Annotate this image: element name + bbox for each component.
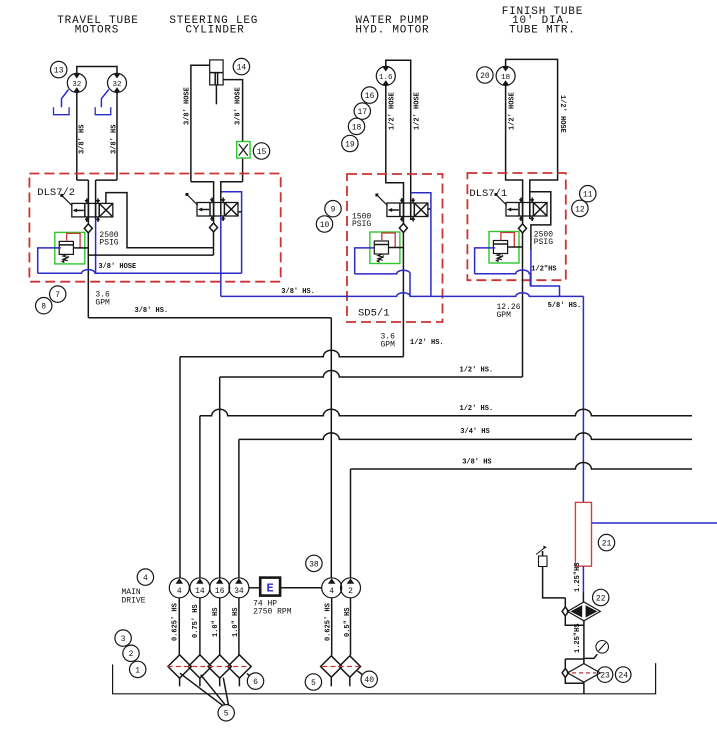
check valve V1 [84, 224, 92, 233]
wire blue 5/8 down [582, 296, 584, 502]
wire L3 1/2 HS [200, 409, 692, 416]
balloon 40 [358, 671, 378, 688]
wire V4 port A [522, 203, 524, 224]
pump P5 4 [322, 578, 342, 598]
svg-text:12: 12 [575, 205, 585, 214]
label 1/2' HS. L2 [460, 367, 494, 375]
motor 18 [496, 66, 515, 85]
balloon 11 [580, 186, 596, 202]
label 0.75' HS p2 [192, 604, 200, 638]
balloon 4 main drive [137, 569, 153, 585]
balloon 13 [51, 61, 67, 77]
balloon 20 [477, 67, 493, 83]
wire M2 down [116, 92, 118, 180]
pump P1 4 [169, 578, 189, 598]
balloon 21 [598, 534, 614, 550]
wire V2 T down [213, 232, 215, 255]
svg-text:3/4' HS: 3/4' HS [460, 428, 489, 436]
strainer S2 [188, 655, 211, 687]
svg-text:5/8' HS.: 5/8' HS. [548, 302, 582, 310]
svg-text:7: 7 [55, 291, 60, 300]
strainer S1 [168, 655, 191, 687]
svg-text:19: 19 [345, 140, 355, 149]
wire suction P6 [350, 598, 352, 656]
wire L2 left down [219, 377, 221, 578]
title FINISH TUBE 10' DIA. TUBE MTR. [502, 6, 583, 37]
balloon 15 [253, 143, 269, 159]
svg-text:9: 9 [331, 206, 336, 215]
filter 22 bypass [562, 598, 584, 625]
balloon 12 [572, 200, 588, 216]
wire blue V4 down [530, 250, 559, 296]
svg-text:3: 3 [121, 635, 126, 644]
svg-text:16: 16 [215, 587, 225, 596]
wire finish motor bottom [506, 85, 523, 202]
filter 22 [568, 602, 601, 621]
wire shaft E-4R [280, 587, 322, 589]
wire cooler out blue [592, 522, 717, 524]
svg-text:14: 14 [237, 63, 247, 72]
svg-text:1.25"HS: 1.25"HS [574, 563, 582, 592]
svg-text:HYD. MOTOR: HYD. MOTOR [355, 25, 429, 37]
drain line M2 [101, 90, 108, 108]
svg-text:0.75' HS: 0.75' HS [192, 604, 200, 638]
wire V3 T down [402, 233, 404, 357]
air breather valve [536, 546, 547, 567]
label 1.25'HS top [574, 563, 582, 592]
svg-text:20: 20 [480, 72, 490, 81]
relief valve RV1 [55, 232, 89, 264]
wire V4 port B [529, 203, 531, 220]
relief valve RV3 [370, 232, 404, 264]
title WATER PUMP HYD. MOTOR [355, 15, 429, 36]
test point X [239, 144, 248, 155]
wire V3 port B [410, 203, 412, 220]
svg-text:3/8' HOSE: 3/8' HOSE [235, 87, 243, 125]
label 74 HP [253, 600, 277, 609]
svg-text:DRIVE: DRIVE [122, 597, 146, 606]
svg-text:1.6: 1.6 [379, 74, 393, 82]
label 2500 PSIG v1 [99, 231, 118, 248]
wire blue to V2 [221, 192, 242, 273]
svg-text:GPM: GPM [497, 311, 512, 320]
engine E box [260, 578, 280, 596]
label 1500 PSIG [352, 213, 371, 230]
wire M1 down [76, 92, 78, 180]
balloon 23 [597, 667, 613, 683]
wire L1 1/2 HS [180, 350, 404, 357]
svg-text:38: 38 [309, 560, 319, 569]
relief valve RV4 [489, 232, 523, 264]
test point 15 green box [237, 142, 250, 159]
svg-text:10: 10 [320, 221, 330, 230]
wire cooler bottom blue [582, 566, 584, 592]
balloon 19 [342, 135, 358, 151]
wire cylinder right [223, 80, 243, 142]
wire V1 port B [95, 180, 97, 219]
wire motor top link [77, 67, 117, 74]
valve V4 DLS7/1 section [495, 193, 548, 221]
label 3/8' HS left [79, 125, 87, 154]
title TRAVEL TUBE MOTORS [57, 15, 138, 36]
filter 23 [568, 664, 601, 683]
wire V3 stub right [428, 208, 431, 210]
label 1/2' HOSE ft left [509, 92, 517, 130]
reservoir bracket M2 [95, 107, 111, 115]
strainer S4 [228, 655, 251, 687]
check valve V3 [399, 224, 407, 233]
svg-text:32: 32 [112, 81, 121, 89]
label 3/8' HOSE [98, 263, 136, 271]
label 3.6 GPM mid [381, 333, 396, 350]
wire suction P4 [238, 598, 240, 656]
pump P4 34 [229, 578, 249, 598]
svg-text:23: 23 [600, 671, 610, 680]
wire V2 stub right [238, 211, 242, 213]
svg-text:2: 2 [129, 650, 134, 659]
svg-text:MOTORS: MOTORS [75, 25, 119, 37]
strainer red line left [168, 666, 250, 668]
svg-text:1/2' HS.: 1/2' HS. [460, 405, 494, 413]
svg-text:GPM: GPM [95, 299, 110, 308]
svg-text:1.25"HS: 1.25"HS [574, 624, 582, 653]
svg-text:21: 21 [602, 539, 612, 548]
wire pump4R up [330, 318, 332, 578]
svg-text:1/2' HOSE: 1/2' HOSE [509, 92, 517, 130]
label 3/8' HS L5 [462, 459, 491, 467]
svg-text:3/8' HOSE: 3/8' HOSE [98, 263, 136, 271]
balloon 3 [115, 630, 131, 646]
valve V1 DLS7/2 section [60, 194, 113, 222]
wire L5 3/8 HS [351, 463, 693, 470]
label 3/8' HS right [111, 125, 119, 154]
label 1/2' HOSE wp left [388, 92, 396, 130]
balloon 1 [130, 661, 146, 677]
label 5/8' HS. [548, 302, 582, 310]
svg-text:14: 14 [195, 587, 205, 596]
wire suction P5 [331, 598, 333, 656]
wire V1 right route [106, 193, 214, 248]
reservoir outline [113, 663, 656, 694]
wire shaft 34-E [249, 587, 260, 589]
strainer S6 [339, 656, 360, 687]
label DLS7/1 [469, 188, 507, 200]
svg-text:1/2' HOSE: 1/2' HOSE [388, 92, 396, 130]
wire L3 left down [199, 416, 201, 578]
wire M1 step [77, 179, 89, 181]
wire M2 step [96, 179, 117, 181]
svg-text:18: 18 [352, 123, 362, 132]
wire L1 left down [179, 357, 181, 578]
wire supply 3/8 HS [88, 317, 331, 319]
label 3/8' HOSE right [235, 87, 243, 125]
wire V2 step left [191, 182, 214, 203]
enclosure DLS7/2 dashed box [29, 174, 280, 282]
enclosure DLS7/1 dashed box [467, 173, 565, 280]
svg-text:TUBE MTR.: TUBE MTR. [509, 25, 576, 37]
balloon 17 [354, 103, 370, 119]
wire filter23 to tank [583, 682, 585, 694]
check valve V4 [519, 224, 527, 233]
cooler 21 [575, 502, 591, 566]
enclosure SD5/1 dashed box [347, 174, 443, 322]
cylinder body [210, 60, 223, 104]
label 1.25'HS bot [574, 624, 582, 653]
balloon 6 [247, 673, 264, 689]
drain line M1 [62, 90, 69, 108]
balloon 10 [316, 216, 332, 232]
wire blue V3 port [411, 193, 431, 297]
wire V2 blue down [220, 216, 222, 296]
wire suction P1 [178, 598, 180, 656]
wire L2 1/2 HS [220, 371, 523, 377]
valve V2 steering section [186, 193, 239, 221]
label 0.625' HS p1 [172, 603, 180, 641]
label 1/2'HS v4 [531, 266, 556, 274]
title STEERING LEG CYLINDER [169, 15, 258, 36]
balloon 16 [361, 87, 377, 103]
svg-text:1/2' HOSE: 1/2' HOSE [414, 92, 422, 130]
label 2750 RPM [253, 608, 292, 617]
svg-text:PSIG: PSIG [534, 238, 553, 247]
pressure gauge [584, 641, 609, 659]
svg-text:13: 13 [54, 66, 64, 75]
strainer S5 [321, 656, 342, 687]
label 1/2' HS. L3 [460, 405, 494, 413]
svg-text:CYLINDER: CYLINDER [185, 25, 244, 37]
svg-text:3/8' HS: 3/8' HS [111, 125, 119, 154]
label 2500 PSIG v4 [534, 231, 553, 248]
pump P6 2 [341, 578, 361, 598]
svg-text:DLS7/1: DLS7/1 [469, 188, 507, 200]
balloon 38 [306, 555, 322, 571]
balloon 24 [615, 667, 631, 683]
balloon 22 [593, 589, 609, 605]
svg-text:3/8' HS.: 3/8' HS. [135, 307, 169, 315]
svg-text:3/8' HS: 3/8' HS [462, 459, 491, 467]
svg-text:40: 40 [364, 676, 374, 685]
wire V1 chain [88, 254, 213, 256]
wire V2 port A [213, 203, 215, 224]
wire water motor bottom [386, 85, 404, 203]
svg-text:15: 15 [257, 148, 267, 157]
svg-text:1/2' HS.: 1/2' HS. [410, 339, 444, 347]
balloon 5 [218, 705, 234, 721]
wire L4 3/4 HS [239, 433, 692, 440]
wire water motor top [386, 60, 411, 203]
balloon 7 [50, 286, 66, 302]
wire blue return [38, 270, 242, 274]
svg-text:0.625' HS: 0.625' HS [172, 603, 180, 641]
balloon 8 [36, 298, 52, 314]
svg-text:3/8' HS: 3/8' HS [79, 125, 87, 154]
label SD5/1 [358, 308, 390, 320]
wire L4 left down [238, 439, 240, 578]
balloon 9 [325, 201, 341, 217]
svg-text:2750 RPM: 2750 RPM [253, 608, 292, 617]
svg-text:11: 11 [583, 191, 593, 200]
svg-text:PSIG: PSIG [99, 239, 118, 248]
label 12.26 GPM [497, 303, 521, 320]
svg-text:1: 1 [135, 666, 140, 675]
svg-text:17: 17 [357, 108, 367, 117]
svg-text:E: E [266, 582, 273, 596]
wire cylinder right lower [242, 158, 244, 182]
svg-text:1/2' HS.: 1/2' HS. [460, 367, 494, 375]
svg-text:5: 5 [224, 710, 229, 719]
label DLS7/2 [37, 187, 75, 199]
label 1.0' HS p4 [232, 608, 240, 637]
pump P3 16 [210, 578, 230, 598]
balloon 5 leaders [180, 673, 229, 705]
label 1/2' HS. mid [410, 339, 444, 347]
svg-text:22: 22 [596, 594, 606, 603]
label 0.5' HS p6 [344, 608, 352, 637]
wire V1 port B blue drop [95, 219, 97, 273]
wire finish motor top [506, 59, 558, 202]
valve V3 SD5/1 section [375, 194, 428, 222]
wire blue relief4 [475, 248, 531, 274]
wire suction P2 [199, 598, 201, 656]
wire breather to filter [543, 567, 566, 598]
wire cylinder left [191, 65, 210, 182]
svg-text:PSIG: PSIG [352, 220, 371, 229]
svg-text:34: 34 [234, 587, 244, 596]
svg-text:3/8' HOSE: 3/8' HOSE [184, 87, 192, 125]
wire main return blue [221, 293, 584, 297]
motor M1 32 [67, 73, 86, 92]
reservoir bracket M1 [54, 107, 70, 115]
balloon 14 [233, 58, 249, 74]
wire V1 T down [87, 233, 89, 318]
label 0.625' HS p5 [325, 603, 333, 641]
pump P2 14 [190, 578, 210, 598]
balloon 18 [348, 118, 364, 134]
svg-text:5: 5 [311, 679, 316, 688]
label 3/4' HS [460, 428, 489, 436]
svg-text:16: 16 [365, 92, 375, 101]
wire V2 step right [221, 182, 243, 203]
svg-text:1.0" HS: 1.0" HS [212, 608, 220, 637]
svg-text:GPM: GPM [381, 341, 396, 350]
wire blue relief3 [355, 248, 411, 297]
svg-text:18: 18 [501, 74, 510, 82]
wire V1 port A [87, 180, 89, 224]
wire V3 port A [403, 203, 405, 224]
filter 23 bypass [562, 659, 584, 683]
label 3/8' HS. blue [281, 288, 315, 296]
label 3/8' HS. left [135, 307, 169, 315]
label 3/8' HOSE left [184, 87, 192, 125]
svg-text:1/2' HOSE: 1/2' HOSE [558, 95, 566, 133]
wire L5 left down [350, 469, 352, 578]
label 1/2' HOSE ft right [558, 95, 566, 133]
strainer S3 [208, 655, 231, 687]
svg-text:32: 32 [72, 81, 81, 89]
wire V4 right loop [530, 192, 551, 250]
label 1.0' HS p3 [212, 608, 220, 637]
svg-text:6: 6 [253, 678, 258, 687]
motor M2 32 [108, 73, 127, 92]
svg-text:4: 4 [329, 587, 334, 596]
label MAIN DRIVE [122, 588, 146, 606]
svg-text:DLS7/2: DLS7/2 [37, 187, 75, 199]
strainer red line right [322, 666, 359, 668]
svg-text:8: 8 [41, 303, 46, 312]
check valve V2 [210, 223, 218, 232]
svg-text:4: 4 [177, 587, 182, 596]
wire filter top [582, 593, 584, 603]
balloon 5 right [305, 674, 321, 690]
svg-text:1/2"HS: 1/2"HS [531, 266, 556, 274]
wire suction P3 [219, 598, 221, 656]
svg-text:24: 24 [618, 671, 628, 680]
wire blue relief1 left [38, 248, 61, 273]
motor 1.6 [376, 66, 395, 85]
balloon 2 [123, 645, 139, 661]
svg-text:4: 4 [143, 574, 148, 583]
svg-text:3/8' HS.: 3/8' HS. [281, 288, 315, 296]
svg-text:SD5/1: SD5/1 [358, 308, 390, 320]
svg-text:2: 2 [348, 587, 353, 596]
wire filter22-23 [583, 621, 585, 664]
label 3.6 GPM left [95, 291, 110, 308]
label 1/2' HOSE wp right [414, 92, 422, 130]
wire V4 T down [522, 233, 524, 377]
